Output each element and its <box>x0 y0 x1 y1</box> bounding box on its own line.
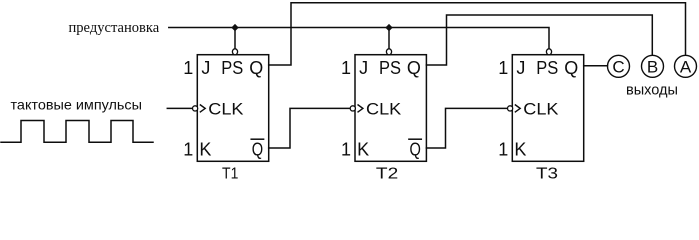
svg-text:J: J <box>201 58 210 78</box>
svg-text:Q: Q <box>410 139 421 159</box>
svg-text:K: K <box>514 139 526 159</box>
svg-text:выходы: выходы <box>626 82 678 99</box>
svg-text:PS: PS <box>221 58 243 78</box>
svg-text:K: K <box>357 139 369 159</box>
svg-text:J: J <box>516 58 525 78</box>
svg-text:T1: T1 <box>222 165 238 181</box>
svg-text:предустановка: предустановка <box>69 20 160 36</box>
svg-text:CLK: CLK <box>523 99 559 118</box>
svg-text:1: 1 <box>341 139 351 159</box>
svg-text:PS: PS <box>536 58 558 78</box>
svg-text:K: K <box>199 139 211 159</box>
svg-text:CLK: CLK <box>208 99 244 118</box>
svg-text:Q: Q <box>564 58 578 78</box>
svg-text:1: 1 <box>498 58 508 78</box>
svg-text:PS: PS <box>379 58 401 78</box>
svg-text:T2: T2 <box>376 165 398 181</box>
svg-text:C: C <box>612 57 624 76</box>
svg-text:тактовые импульсы: тактовые импульсы <box>11 97 143 113</box>
svg-text:Q: Q <box>249 58 263 78</box>
svg-text:B: B <box>647 57 658 76</box>
svg-text:1: 1 <box>341 58 351 78</box>
svg-text:CLK: CLK <box>366 99 402 118</box>
svg-text:A: A <box>680 57 692 76</box>
svg-text:1: 1 <box>183 139 193 159</box>
svg-text:Q: Q <box>252 139 263 159</box>
svg-text:T3: T3 <box>536 165 558 181</box>
svg-text:1: 1 <box>498 139 508 159</box>
svg-text:J: J <box>359 58 368 78</box>
svg-text:Q: Q <box>407 58 421 78</box>
svg-text:1: 1 <box>183 58 193 78</box>
